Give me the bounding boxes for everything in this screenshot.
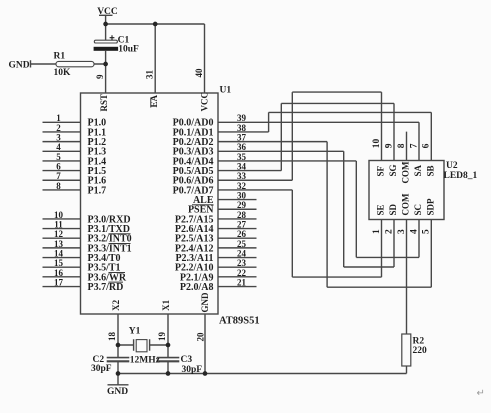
svg-text:13: 13 (54, 239, 64, 249)
svg-text:31: 31 (145, 70, 155, 80)
svg-text:GND: GND (200, 292, 210, 313)
svg-text:X1: X1 (161, 299, 171, 310)
svg-text:220: 220 (413, 346, 428, 356)
svg-text:30: 30 (237, 190, 247, 200)
svg-text:7: 7 (409, 143, 419, 148)
svg-text:38: 38 (237, 123, 247, 133)
svg-text:AT89S51: AT89S51 (219, 316, 260, 327)
svg-text:GND: GND (107, 387, 128, 397)
svg-text:LED8_1: LED8_1 (444, 171, 478, 181)
svg-text:19: 19 (157, 332, 167, 342)
svg-text:6: 6 (422, 143, 432, 148)
svg-text:7: 7 (56, 171, 61, 181)
svg-text:39: 39 (237, 113, 247, 123)
svg-text:27: 27 (237, 219, 247, 229)
svg-text:5: 5 (56, 152, 61, 162)
svg-text:5: 5 (422, 229, 432, 234)
svg-text:18: 18 (107, 332, 117, 342)
svg-text:SD: SD (388, 203, 398, 215)
svg-text:4: 4 (56, 142, 61, 152)
svg-text:3: 3 (56, 133, 61, 143)
svg-text:GND: GND (9, 60, 30, 70)
svg-text:VCC: VCC (97, 7, 118, 17)
svg-text:EA: EA (149, 94, 159, 107)
svg-text:P2.0/A8: P2.0/A8 (180, 282, 214, 293)
svg-text:SG: SG (388, 164, 398, 176)
svg-text:X2: X2 (111, 299, 121, 310)
svg-text:15: 15 (54, 258, 64, 268)
svg-text:P3.7/RD: P3.7/RD (88, 282, 124, 293)
svg-text:35: 35 (237, 152, 247, 162)
svg-text:24: 24 (237, 248, 247, 258)
svg-text:SE: SE (376, 204, 386, 215)
svg-text:3: 3 (397, 229, 407, 234)
svg-text:26: 26 (237, 229, 247, 239)
svg-text:16: 16 (54, 268, 64, 278)
svg-text:1: 1 (56, 113, 61, 123)
svg-text:8: 8 (397, 143, 407, 148)
svg-text:10K: 10K (54, 68, 72, 78)
svg-text:4: 4 (409, 229, 419, 234)
svg-text:9: 9 (384, 143, 394, 148)
svg-text:U1: U1 (220, 86, 232, 96)
svg-text:20: 20 (196, 332, 206, 342)
svg-text:2: 2 (56, 123, 61, 133)
svg-text:SB: SB (426, 165, 436, 176)
svg-text:30pF: 30pF (91, 364, 112, 374)
svg-text:33: 33 (237, 171, 247, 181)
svg-text:COM: COM (401, 161, 411, 184)
svg-text:SDP: SDP (426, 198, 436, 216)
svg-text:1: 1 (372, 229, 382, 234)
svg-text:25: 25 (237, 239, 247, 249)
svg-text:COM: COM (401, 193, 411, 216)
svg-text:2: 2 (384, 229, 394, 234)
svg-text:↵: ↵ (477, 388, 485, 399)
svg-text:34: 34 (237, 162, 247, 172)
svg-text:SC: SC (413, 204, 423, 216)
svg-text:32: 32 (237, 181, 247, 191)
svg-text:10uF: 10uF (118, 45, 139, 55)
svg-text:SF: SF (376, 165, 386, 176)
svg-text:23: 23 (237, 258, 247, 268)
svg-text:12MHz: 12MHz (130, 356, 161, 366)
svg-text:29: 29 (237, 200, 247, 210)
svg-text:U2: U2 (446, 161, 458, 171)
svg-text:VCC: VCC (199, 92, 209, 112)
svg-text:30pF: 30pF (182, 365, 203, 375)
svg-text:40: 40 (194, 68, 204, 78)
svg-text:8: 8 (56, 181, 61, 191)
svg-text:9: 9 (95, 74, 105, 79)
svg-text:22: 22 (237, 268, 247, 278)
svg-text:28: 28 (237, 210, 247, 220)
svg-text:Y1: Y1 (129, 327, 141, 337)
svg-text:21: 21 (237, 277, 247, 287)
svg-text:R1: R1 (54, 51, 66, 61)
svg-text:6: 6 (56, 162, 61, 172)
svg-text:C3: C3 (181, 355, 193, 365)
svg-text:10: 10 (54, 210, 64, 220)
svg-text:12: 12 (54, 229, 64, 239)
svg-text:36: 36 (237, 142, 247, 152)
svg-text:37: 37 (237, 133, 247, 143)
svg-text:10: 10 (372, 139, 382, 149)
svg-text:SA: SA (413, 164, 423, 176)
svg-text:14: 14 (54, 248, 64, 258)
svg-text:17: 17 (54, 277, 64, 287)
svg-text:RST: RST (99, 94, 109, 112)
svg-text:P1.7: P1.7 (88, 185, 107, 196)
svg-text:11: 11 (54, 219, 63, 229)
